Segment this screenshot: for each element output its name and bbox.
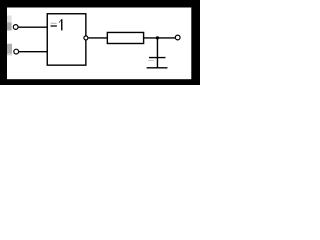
terminal OUT: [175, 35, 180, 40]
node A junction dot: [156, 36, 159, 39]
inversion bubble on U1 output: [84, 36, 88, 40]
capacitor C1 top plate: [149, 57, 166, 59]
capacitor C1 plate ghost mark: [148, 60, 154, 61]
XNOR gate U1 body (IEC =1 with inverted output): [47, 14, 86, 65]
input connector stub IN1: [7, 16, 12, 31]
wire junction down to capacitor C1: [156, 38, 158, 68]
wire gate output to resistor R1: [89, 37, 108, 39]
wire IN1 to gate: [18, 26, 47, 28]
canvas background: [0, 0, 200, 85]
terminal IN2: [14, 49, 19, 54]
terminal IN1: [13, 25, 18, 30]
resistor R1: [107, 32, 143, 43]
wire IN2 to gate: [19, 51, 47, 53]
input connector stub IN2: [7, 44, 12, 56]
value label "=1" of gate U1: [51, 19, 63, 30]
capacitor C1 bottom plate: [147, 67, 168, 69]
wire resistor R1 to output terminal: [143, 37, 175, 39]
